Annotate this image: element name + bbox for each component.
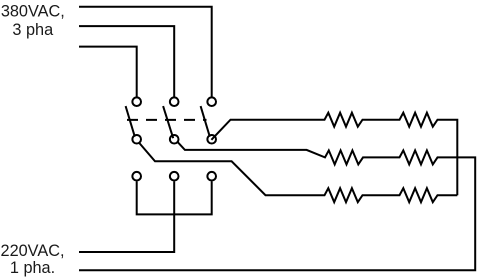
svg-text:380VAC,: 380VAC, xyxy=(1,3,65,21)
svg-text:220VAC,: 220VAC, xyxy=(1,242,65,260)
svg-text:1 pha.: 1 pha. xyxy=(10,259,55,277)
svg-text:3 pha: 3 pha xyxy=(12,21,54,39)
